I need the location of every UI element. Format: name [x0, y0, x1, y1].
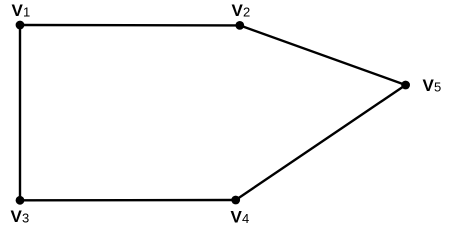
node V2	[232, 1, 251, 30]
svg-text:V: V	[232, 1, 244, 20]
wire V2-V5	[240, 25, 406, 85]
node V3	[11, 196, 30, 226]
svg-text:5: 5	[434, 80, 441, 95]
node V4	[231, 196, 250, 227]
wire V1-V2	[20, 24, 240, 27]
svg-text:2: 2	[243, 5, 250, 20]
svg-text:V: V	[12, 1, 24, 20]
svg-text:V: V	[423, 76, 435, 95]
node V1	[12, 1, 31, 29]
wire V5-V4	[236, 85, 406, 200]
svg-text:3: 3	[22, 211, 29, 226]
wire V4-V3	[20, 199, 236, 202]
svg-text:1: 1	[23, 5, 30, 20]
node V5	[401, 76, 441, 95]
svg-text:4: 4	[242, 211, 249, 226]
wire V3-V1	[19, 25, 21, 200]
svg-text:V: V	[11, 207, 23, 226]
svg-text:V: V	[231, 208, 243, 227]
